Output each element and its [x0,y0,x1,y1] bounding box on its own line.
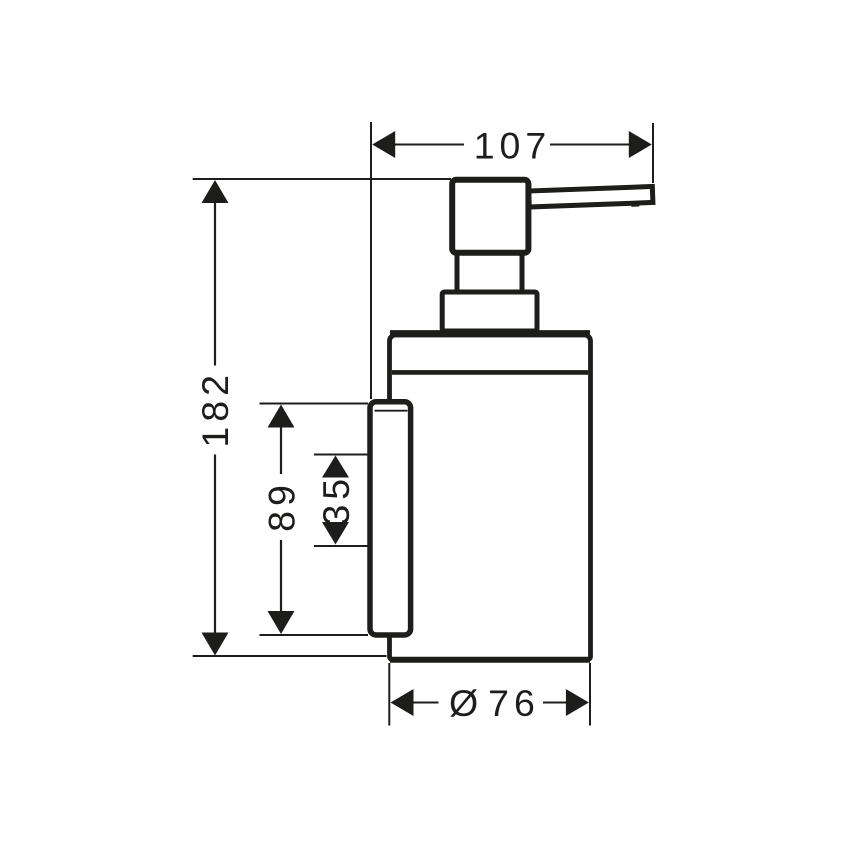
dimension 76 arrow right [566,689,589,716]
bottle shoulder line [392,370,588,375]
dimension 182 line upper segment [214,201,216,366]
dimension 35 extension line top [314,454,368,456]
dimension 107 line right segment [550,144,630,146]
spout outlet tick [631,202,639,206]
dimension 89 arrow up [268,405,295,428]
dimension 35 extension line bottom [314,545,368,547]
dimension 76 line right segment [543,702,568,704]
dimension 35 arrow up [322,456,349,478]
pump neck [457,253,522,292]
dimension 89 line upper segment [280,427,282,474]
dimension 89 line lower segment [280,540,282,612]
dimension 76 arrow left [391,689,414,716]
dimension 76 line left segment [413,702,439,704]
bottle top edge (thicker) [390,330,590,337]
svg-text:35: 35 [315,474,357,526]
dimension 107 extension line right [652,123,654,183]
wall holder bracket [370,402,411,635]
dimension 76 extension line left [388,663,390,726]
bottle body outline [390,335,591,660]
dimension 89 arrow down [268,611,295,634]
spout [529,186,653,210]
dimension 182 arrow down [202,633,229,656]
svg-text:Ø: Ø [449,682,478,724]
svg-text:76: 76 [488,682,540,724]
svg-text:89: 89 [260,480,302,532]
dimension 107 arrow left [372,131,395,158]
bottle bottom edge (thicker) [390,657,590,663]
dimension 89 extension line top [260,403,369,405]
dimension 182 extension line bottom [193,655,387,657]
dimension 182 line lower segment [214,455,216,635]
pump collar [442,292,537,331]
dimension 107 line left segment [395,144,465,146]
pump head [452,180,528,253]
wall holder inner edge line [375,410,408,412]
dimension 76 extension line right [589,663,591,726]
dimension 182 arrow up [202,180,229,203]
dimension 107 extension line left [370,122,372,399]
dimension 182 extension line top [193,178,451,180]
dimension 35 arrow down [322,522,349,545]
svg-text:182: 182 [194,370,236,448]
dimension 107 arrow right [629,131,652,158]
dimension 89 extension line bottom [260,634,369,636]
svg-text:107: 107 [474,125,552,167]
